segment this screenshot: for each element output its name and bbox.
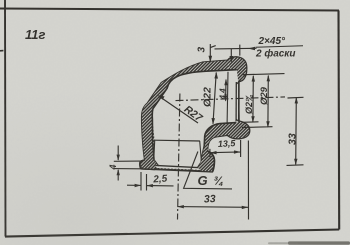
frame left edge: [4, 0, 7, 237]
frame top edge: [0, 9, 339, 11]
inner arc + top wall inner + left wall inner: [152, 70, 237, 160]
scan shading: [0, 0, 1, 1]
mouth chamfer right: [198, 162, 202, 168]
frame right edge: [337, 11, 340, 230]
dim 4 (left): [114, 146, 141, 181]
chamfer leader 2x45: [215, 45, 257, 63]
body section: [140, 57, 249, 172]
right mouth chamfer top: [236, 81, 239, 84]
mouth chamfer left: [154, 160, 159, 167]
right mouth inner face line: [235, 82, 237, 121]
leader R27: [158, 95, 198, 123]
axis vertical (bottom opening): [178, 94, 180, 220]
thread line left (bottom socket): [153, 141, 156, 160]
denser hatch overlay: inner corner band: [204, 122, 236, 151]
dim O22 (right bore): [212, 72, 219, 125]
axis horizontal (right opening): [176, 97, 286, 101]
bore bottom of right pipe + inner corner: [201, 123, 236, 162]
stray mark left margin: [0, 50, 3, 52]
right mouth outer face line: [238, 81, 240, 121]
dim 13,5: [210, 140, 241, 157]
bottom face ring erase: [155, 166, 200, 170]
leader G 3/4: [184, 152, 232, 189]
thread end line (right socket): [226, 72, 229, 124]
dim 33 right: [287, 97, 304, 165]
denser hatch overlay: right mouth bottom bead: [228, 122, 249, 139]
thread end line (bottom socket): [154, 139, 200, 142]
bottom face top line: [143, 165, 211, 168]
dim 2,5: [127, 172, 174, 191]
dim O29: [242, 75, 273, 128]
dim 33 bottom: [177, 141, 248, 220]
denser hatch overlay: top bead: [228, 57, 246, 81]
bore (interior erase): [152, 70, 238, 168]
dim O2 1/4: [242, 74, 285, 123]
denser hatch overlay: arc band: [142, 61, 228, 161]
dim 4,4: [224, 79, 228, 102]
right mouth chamfer bottom: [236, 119, 239, 121]
dim 3 (top wall): [209, 44, 216, 63]
left bead foot (hatched): [140, 160, 156, 170]
thread line right (bottom socket): [200, 141, 202, 162]
right mouth ring erase: [237, 82, 239, 122]
right bead foot (hatched): [198, 146, 214, 171]
frame bottom edge: [5, 230, 339, 237]
scan shadow bottom-right: [268, 241, 350, 244]
